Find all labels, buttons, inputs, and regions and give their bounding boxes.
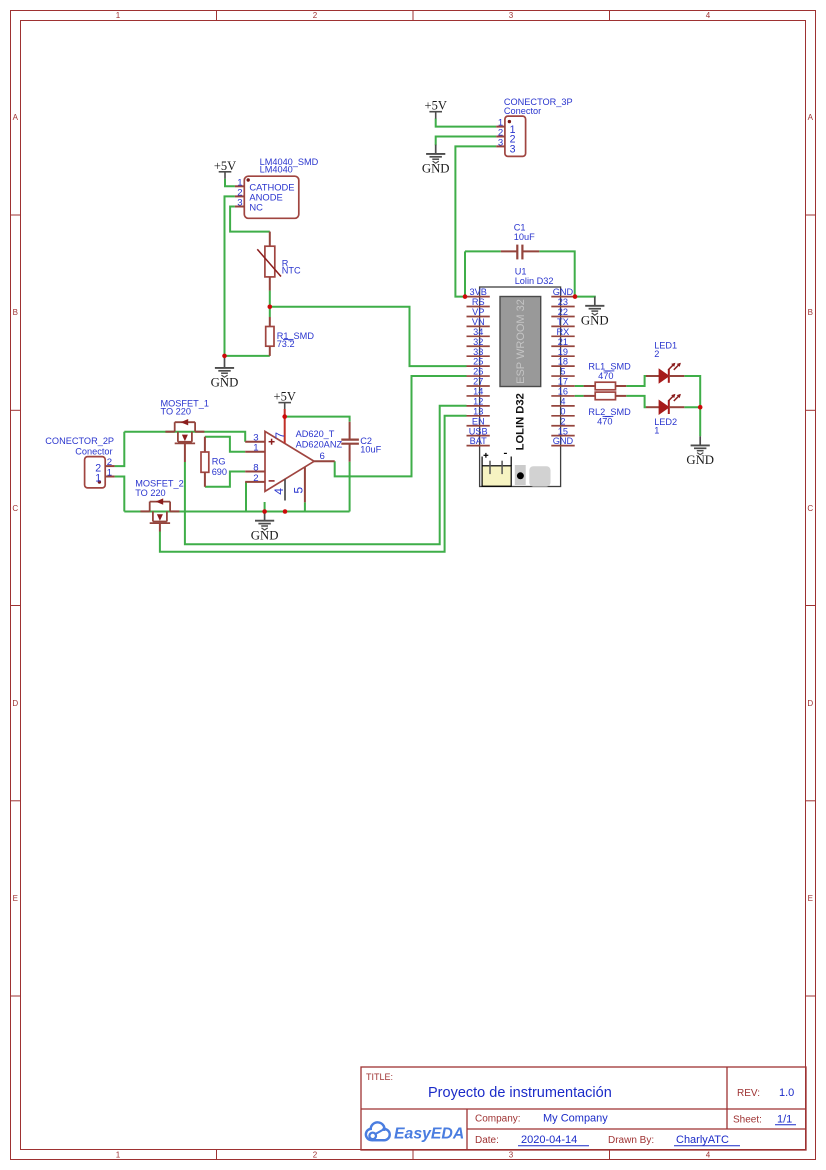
svg-text:470: 470 bbox=[598, 371, 613, 381]
svg-text:18: 18 bbox=[558, 357, 568, 367]
svg-text:Proyecto de instrumentación: Proyecto de instrumentación bbox=[428, 1085, 612, 1101]
svg-text:7: 7 bbox=[273, 432, 287, 439]
svg-text:TO 220: TO 220 bbox=[161, 406, 191, 416]
svg-text:D: D bbox=[12, 699, 18, 708]
svg-text:LM4040: LM4040 bbox=[260, 165, 293, 175]
svg-text:8: 8 bbox=[253, 462, 258, 473]
svg-text:3: 3 bbox=[510, 144, 516, 156]
svg-text:34: 34 bbox=[473, 327, 483, 337]
svg-text:GND: GND bbox=[686, 453, 714, 467]
svg-text:4: 4 bbox=[706, 1151, 711, 1160]
svg-text:3: 3 bbox=[237, 198, 242, 209]
svg-text:12: 12 bbox=[473, 396, 483, 406]
svg-text:2: 2 bbox=[253, 473, 258, 484]
svg-text:2: 2 bbox=[107, 457, 112, 468]
svg-text:1: 1 bbox=[116, 1151, 121, 1160]
svg-text:C: C bbox=[807, 504, 813, 513]
svg-text:RX: RX bbox=[557, 327, 570, 337]
svg-text:690: 690 bbox=[212, 467, 227, 477]
svg-text:E: E bbox=[13, 894, 18, 903]
svg-text:U1: U1 bbox=[515, 266, 527, 276]
svg-text:+5V: +5V bbox=[425, 98, 447, 112]
svg-text:E: E bbox=[808, 894, 813, 903]
svg-text:17: 17 bbox=[558, 377, 568, 387]
svg-text:33: 33 bbox=[473, 347, 483, 357]
svg-text:ESP WROOM 32: ESP WROOM 32 bbox=[515, 299, 527, 384]
svg-text:22: 22 bbox=[558, 307, 568, 317]
svg-text:VN: VN bbox=[472, 317, 485, 327]
svg-text:3VB: 3VB bbox=[470, 287, 487, 297]
svg-text:Conector: Conector bbox=[504, 106, 541, 116]
svg-text:VP: VP bbox=[472, 307, 484, 317]
svg-text:B: B bbox=[13, 308, 18, 317]
svg-text:Company:: Company: bbox=[475, 1114, 521, 1125]
svg-text:73.2: 73.2 bbox=[277, 339, 295, 349]
svg-text:USB: USB bbox=[469, 426, 488, 436]
svg-text:4: 4 bbox=[706, 11, 711, 20]
svg-text:6: 6 bbox=[320, 451, 325, 462]
svg-text:CONECTOR_2P: CONECTOR_2P bbox=[45, 436, 114, 446]
svg-text:C1: C1 bbox=[514, 223, 526, 233]
svg-text:3: 3 bbox=[509, 1151, 514, 1160]
svg-text:3: 3 bbox=[498, 138, 503, 149]
svg-text:19: 19 bbox=[558, 347, 568, 357]
svg-text:BAT: BAT bbox=[470, 436, 488, 446]
svg-text:14: 14 bbox=[473, 387, 483, 397]
svg-text:GND: GND bbox=[553, 436, 574, 446]
svg-text:25: 25 bbox=[473, 357, 483, 367]
svg-text:RG: RG bbox=[212, 456, 226, 466]
svg-text:NC: NC bbox=[249, 202, 263, 213]
svg-text:1: 1 bbox=[654, 426, 659, 436]
svg-text:10uF: 10uF bbox=[360, 444, 381, 454]
svg-text:TITLE:: TITLE: bbox=[366, 1072, 393, 1082]
svg-text:Drawn By:: Drawn By: bbox=[608, 1135, 654, 1146]
svg-text:1/1: 1/1 bbox=[777, 1114, 792, 1126]
svg-text:TO 220: TO 220 bbox=[135, 488, 165, 498]
svg-text:13: 13 bbox=[473, 406, 483, 416]
svg-text:10uF: 10uF bbox=[514, 232, 535, 242]
svg-text:+5V: +5V bbox=[214, 159, 236, 173]
svg-text:27: 27 bbox=[473, 377, 483, 387]
svg-text:Conector: Conector bbox=[75, 446, 112, 456]
svg-text:Lolin D32: Lolin D32 bbox=[515, 276, 554, 286]
svg-text:+5V: +5V bbox=[274, 389, 296, 403]
svg-text:GND: GND bbox=[553, 287, 574, 297]
svg-text:2: 2 bbox=[654, 349, 659, 359]
svg-text:GND: GND bbox=[422, 162, 450, 176]
svg-text:2: 2 bbox=[560, 416, 565, 426]
svg-text:Date:: Date: bbox=[475, 1135, 499, 1146]
svg-text:RS: RS bbox=[472, 297, 485, 307]
svg-text:D: D bbox=[807, 699, 813, 708]
svg-text:2: 2 bbox=[313, 1151, 318, 1160]
svg-text:1: 1 bbox=[253, 443, 258, 454]
svg-text:23: 23 bbox=[558, 297, 568, 307]
svg-text:4: 4 bbox=[272, 488, 286, 495]
svg-text:5: 5 bbox=[291, 487, 305, 494]
svg-text:CharlyATC: CharlyATC bbox=[676, 1134, 729, 1146]
svg-text:TX: TX bbox=[557, 317, 569, 327]
svg-text:2020-04-14: 2020-04-14 bbox=[521, 1134, 577, 1146]
svg-text:My Company: My Company bbox=[543, 1113, 608, 1125]
svg-text:REV:: REV: bbox=[737, 1088, 760, 1099]
svg-text:2: 2 bbox=[313, 11, 318, 20]
svg-text:4: 4 bbox=[560, 396, 565, 406]
svg-text:21: 21 bbox=[558, 337, 568, 347]
svg-text:A: A bbox=[808, 113, 814, 122]
svg-text:LOLIN D32: LOLIN D32 bbox=[514, 393, 526, 450]
svg-text:5: 5 bbox=[560, 367, 565, 377]
svg-text:C: C bbox=[12, 504, 18, 513]
svg-text:Sheet:: Sheet: bbox=[733, 1115, 762, 1126]
svg-text:470: 470 bbox=[597, 416, 612, 426]
svg-text:GND: GND bbox=[581, 313, 609, 327]
svg-text:16: 16 bbox=[558, 387, 568, 397]
svg-text:1: 1 bbox=[95, 472, 101, 484]
svg-text:GND: GND bbox=[251, 528, 279, 542]
svg-text:AD620_T: AD620_T bbox=[296, 429, 335, 439]
svg-text:1.0: 1.0 bbox=[779, 1087, 794, 1099]
svg-text:0: 0 bbox=[560, 406, 565, 416]
svg-text:EN: EN bbox=[472, 416, 485, 426]
svg-text:26: 26 bbox=[473, 367, 483, 377]
svg-text:B: B bbox=[808, 308, 813, 317]
svg-text:EasyEDA: EasyEDA bbox=[394, 1125, 464, 1142]
svg-text:A: A bbox=[13, 113, 19, 122]
svg-text:1: 1 bbox=[116, 11, 121, 20]
svg-text:1: 1 bbox=[107, 468, 112, 479]
svg-text:32: 32 bbox=[473, 337, 483, 347]
svg-text:AD620ANZ: AD620ANZ bbox=[296, 439, 343, 449]
svg-text:3: 3 bbox=[509, 11, 514, 20]
svg-text:GND: GND bbox=[211, 376, 239, 390]
svg-text:15: 15 bbox=[558, 426, 568, 436]
svg-text:RL1_SMD: RL1_SMD bbox=[588, 361, 631, 371]
svg-text:NTC: NTC bbox=[282, 266, 301, 276]
